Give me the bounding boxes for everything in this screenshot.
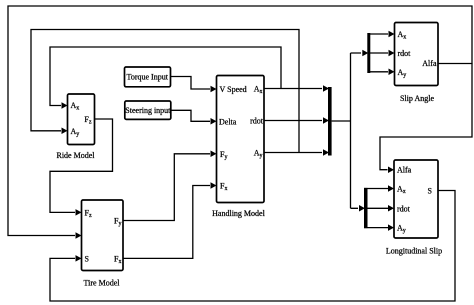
svg-text:rdot: rdot: [250, 117, 264, 126]
svg-text:Alfa: Alfa: [422, 59, 437, 68]
svg-text:Slip Angle: Slip Angle: [400, 94, 434, 103]
svg-text:S: S: [85, 254, 89, 263]
svg-text:Steering input: Steering input: [125, 106, 171, 115]
svg-text:Longitudinal Slip: Longitudinal Slip: [386, 247, 442, 256]
svg-text:Alfa: Alfa: [397, 166, 412, 175]
svg-text:S: S: [428, 187, 432, 196]
svg-text:Handling Model: Handling Model: [212, 209, 265, 218]
svg-text:Ride Model: Ride Model: [57, 151, 96, 160]
svg-text:rdot: rdot: [397, 204, 411, 213]
svg-text:Tire Model: Tire Model: [84, 279, 121, 288]
svg-text:V Speed: V Speed: [220, 85, 247, 94]
svg-text:Delta: Delta: [219, 117, 237, 126]
svg-text:rdot: rdot: [398, 49, 412, 58]
svg-text:Torque Input: Torque Input: [127, 73, 169, 82]
